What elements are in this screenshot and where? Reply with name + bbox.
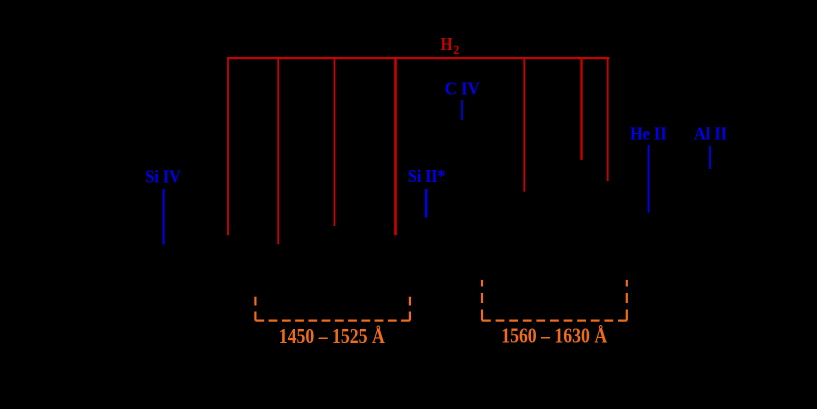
H2 line 1 (227, 57, 229, 235)
H2 line 2 (277, 57, 279, 244)
svg-text:Si II*: Si II* (408, 166, 446, 186)
tick Si II* (425, 189, 428, 218)
svg-text:He II: He II (630, 123, 667, 143)
H2 line 5 (523, 57, 525, 192)
svg-text:2: 2 (453, 43, 459, 57)
bracket 2 left vertical dashes (481, 280, 483, 321)
H2 line 7 (607, 57, 609, 181)
svg-text:H: H (441, 34, 453, 54)
bracket 1 horizontal dashes (255, 320, 410, 322)
bracket 2 horizontal dashes (482, 320, 627, 322)
H2 top horizontal connector bar (227, 57, 609, 59)
svg-text:Si IV: Si IV (145, 167, 180, 187)
bracket 2 right vertical dashes (626, 280, 628, 321)
tick C IV (461, 100, 463, 120)
svg-text:C IV: C IV (445, 78, 480, 98)
H2 line 3 (333, 57, 335, 226)
svg-text:1560 – 1630 Å: 1560 – 1630 Å (501, 323, 608, 347)
svg-text:1450 – 1525 Å: 1450 – 1525 Å (279, 324, 386, 348)
H2 line 6 (580, 57, 582, 160)
H2 line 4 (394, 57, 397, 235)
tick Si IV (163, 189, 165, 245)
bracket 1 left vertical dashes (254, 297, 256, 321)
bracket 1 right vertical dashes (409, 297, 411, 321)
svg-text:Al II: Al II (694, 123, 727, 143)
tick He II (648, 145, 650, 213)
tick Al II (709, 146, 711, 169)
